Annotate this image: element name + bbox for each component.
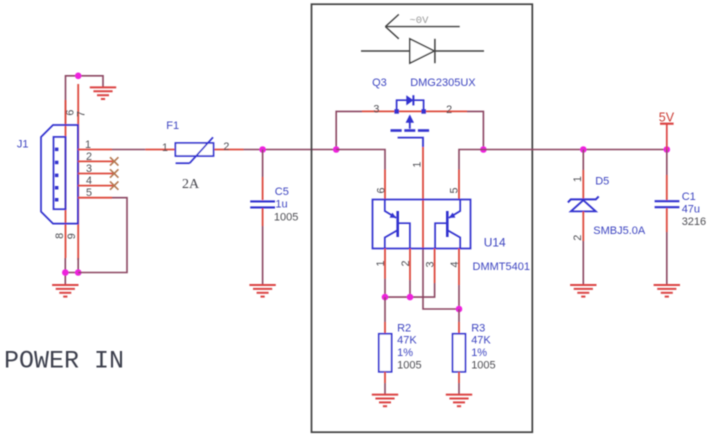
svg-text:C1: C1 [682,191,696,203]
wire D5 node down [582,150,584,171]
wire main-left to U14 pin6 [336,150,385,170]
pin R2.2 lead [384,372,386,383]
svg-text:6: 6 [375,187,387,193]
capacitor C5 plates [250,200,275,202]
pin C1.2 lead [666,208,668,232]
svg-text:DMMT5401: DMMT5401 [473,261,530,273]
transistor U14 left PNP base bar [396,211,399,237]
svg-text:7: 7 [76,111,88,117]
svg-text:5: 5 [86,187,92,199]
pin D5.1 lead [582,170,584,198]
node junction pin1/R2 [382,294,389,301]
transistor Q3 source arrow [409,116,411,129]
svg-text:R2: R2 [397,322,411,334]
svg-text:2: 2 [223,141,229,153]
node junction pin2 [407,294,414,301]
svg-text:47u: 47u [682,203,700,215]
ground at J1 bottom [64,273,66,285]
node junction Q3 pin3 tap [333,146,340,153]
wire R2 to ground [384,383,386,394]
svg-text:3: 3 [424,261,436,267]
pin J1.2 lead [78,160,115,162]
pin D5.2 lead [582,211,584,241]
pin U14.1 lead [384,249,386,279]
pin C5.2 lead [262,208,264,226]
wire F1 to C5 node [244,149,263,151]
svg-text:F1: F1 [166,120,179,132]
svg-text:1%: 1% [471,347,487,359]
pin C1.1 lead [666,175,668,200]
fuse F1 diagonal strike [190,137,213,163]
wire C1 to ground [666,232,668,285]
svg-text:47K: 47K [397,335,417,347]
svg-text:1: 1 [85,139,91,151]
node junction J1 bottom pin9 [75,269,82,276]
svg-text:2: 2 [572,235,584,241]
ground at R2 [372,395,398,407]
fuse F1 body [175,143,213,156]
wire net pins 1-2-3 [385,279,435,298]
pin Q3.1 gate lead down through U14 [422,147,424,249]
node junction Q3 pin2 tap [480,146,487,153]
svg-text:4: 4 [86,175,92,187]
ground at D5 [570,285,596,297]
wire pin4 drop to gate node [458,285,460,309]
wire R2 node down [384,297,386,322]
transistor U14 left PNP emitter [385,200,396,218]
diode D5 zener bar [568,196,599,202]
wire R3 node down [458,309,460,322]
pin U14.3 lead [434,249,436,284]
wire pin2 drop [409,280,411,297]
pin U14.2 lead [409,249,411,281]
svg-text:1: 1 [411,162,423,168]
wire C1 node down [666,150,668,176]
svg-text:U14: U14 [484,235,506,249]
transistor Q3 pad dots [394,109,399,114]
svg-text:3216: 3216 [682,216,706,228]
node junction pin4/R3/gate [456,306,463,313]
transistor Q3 body-diode loop [397,100,424,111]
pin J1.4 lead [78,185,115,187]
annotation arrow (current direction) [385,14,459,38]
svg-text:3: 3 [373,103,379,115]
transistor U14 right PNP collector [448,231,460,249]
wire J1.1 to F1 [112,149,145,151]
ground at C1 [654,285,680,297]
wire J1 pins 6,7 top bus to ground [66,76,104,125]
wire D5 to ground [582,241,584,285]
sheet symbol box [312,4,533,432]
node junction D5 tap [580,146,587,153]
ground at J1 top [90,87,116,99]
wire D5 node to 5V/C1 node [583,149,667,151]
pin F1.2 lead [214,149,244,151]
svg-text:~0V: ~0V [410,15,430,27]
pin U14.6 lead [384,170,386,200]
pin J1.6 lead through body [65,100,67,258]
ground at R3 [446,395,472,407]
transistor Q3 body-diode bar [412,95,414,105]
wire between Q3 pads [397,110,424,112]
wire C5 to ground [262,226,264,285]
wire right node to D5 node [483,149,583,151]
wire C5 node into box [263,149,337,151]
pin R3.1 lead [458,322,460,334]
svg-text:3: 3 [86,163,92,175]
pin Q3.3 lead [362,110,397,112]
wire main node to Q3 pin3 [336,111,362,149]
no-connect X on J1.2 [110,157,118,165]
pin U14.4 lead [458,249,460,286]
fuse F1 foot [176,162,190,164]
pin J1.1 lead [78,149,112,151]
pin C5.1 lead [262,177,264,200]
pin J1.7 lead through body [77,84,79,260]
svg-text:1005: 1005 [397,360,421,372]
svg-text:1005: 1005 [274,212,298,224]
wire Q3 pin2 to right node [467,111,483,149]
wire J1 pins 8,9 bottom bus [65,258,78,273]
node junction C5 tap [259,146,266,153]
svg-text:2: 2 [400,260,412,266]
wire R3 to ground [458,383,460,394]
svg-text:J1: J1 [17,139,29,151]
pin U14.5 lead [458,170,460,200]
svg-text:9: 9 [66,233,78,239]
svg-text:2: 2 [86,151,92,163]
transistor U14 box [373,200,471,249]
svg-text:C5: C5 [275,186,289,198]
svg-text:5: 5 [448,187,460,193]
resistor R2 body [379,334,392,372]
svg-text:4: 4 [449,261,461,267]
transistor Q3 gate plate [398,138,423,147]
transistor U14 left PNP base lead [398,223,410,248]
wire Q3 gate to R3/pin4 node [423,249,459,310]
svg-text:1u: 1u [275,198,287,210]
svg-text:1: 1 [162,142,168,154]
pin J1.3 lead [78,173,115,175]
node junction J1 top (pin7 to GND bus) [75,73,82,80]
svg-text:1: 1 [375,260,387,266]
connector J1 inner shroud [54,137,66,209]
transistor U14 right PNP emitter [449,200,460,218]
annotation diode symbol [361,39,484,63]
no-connect X on J1.3 [110,169,118,177]
svg-text:POWER IN: POWER IN [4,347,124,376]
node junction 5V/C1 [664,146,671,153]
svg-text:1%: 1% [397,347,413,359]
svg-text:5V: 5V [659,111,675,125]
no-connect X on J1.4 [110,181,118,189]
pin R2.1 lead [384,322,386,334]
resistor R3 body [453,334,466,372]
transistor U14 right PNP base lead [435,223,447,248]
pin Q3.2 lead [424,110,467,112]
pin R3.2 lead [458,372,460,383]
svg-text:Q3: Q3 [372,77,387,89]
diode D5 triangle [571,200,596,211]
node junction J1 bottom pin8 [62,269,69,276]
svg-text:2A: 2A [182,177,200,192]
capacitor C1 plates [655,200,680,202]
wire right node to U14 pin5 [459,150,483,170]
svg-text:1005: 1005 [471,360,495,372]
transistor Q3 body-diode triangle [406,95,413,105]
svg-text:8: 8 [54,233,66,239]
svg-text:R3: R3 [471,322,485,334]
svg-text:DMG2305UX: DMG2305UX [410,77,476,89]
transistor Q3 channel stubs [391,129,430,132]
transistor U14 right PNP base bar [446,211,449,237]
wire C5 node down [262,150,264,178]
svg-text:2: 2 [446,104,452,116]
svg-text:1: 1 [572,176,584,182]
wire J1.5 loop to bottom bus [78,198,127,273]
pin F1.1 lead [145,149,175,151]
svg-text:SMBJ5.0A: SMBJ5.0A [593,225,646,237]
pin J1.5 lead [78,197,112,199]
connector J1 contact squares [55,148,59,202]
ground at C5 [249,285,275,297]
svg-text:D5: D5 [595,176,609,188]
connector J1 body [41,125,78,224]
transistor U14 left PNP collector [385,231,397,249]
svg-text:47K: 47K [471,335,491,347]
